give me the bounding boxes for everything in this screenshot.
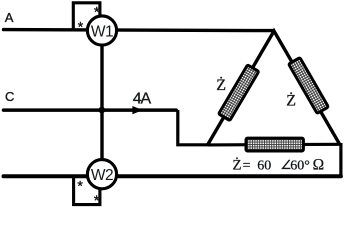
delta: left and right legs bbox=[208, 31, 340, 145]
wire: line C from left edge to corner bbox=[4, 108, 177, 112]
svg-text:Ż: Ż bbox=[216, 76, 226, 94]
wire: vertical from W1 down to W2 bbox=[100, 45, 103, 160]
impedance Z (delta left leg, hatched box) bbox=[219, 65, 259, 121]
wire: from delta right vertex down to line B bbox=[339, 143, 342, 176]
svg-text:Ż: Ż bbox=[286, 91, 296, 109]
svg-text:A: A bbox=[5, 10, 14, 25]
svg-text:4A: 4A bbox=[133, 91, 152, 108]
wire: line B from left edge to right riser bbox=[4, 174, 341, 178]
delta: bottom side bbox=[208, 143, 340, 147]
svg-text:Ż: Ż bbox=[232, 158, 241, 174]
svg-text:C: C bbox=[5, 89, 14, 104]
wattmeter W2 bbox=[87, 160, 116, 189]
svg-text:=: = bbox=[243, 159, 251, 174]
svg-text:*: * bbox=[77, 177, 83, 193]
wattmeter W1 potential-coil loop bbox=[73, 3, 100, 30]
svg-text:Ω: Ω bbox=[313, 157, 325, 174]
svg-text:*: * bbox=[94, 192, 100, 208]
svg-text:60: 60 bbox=[257, 159, 271, 174]
wattmeter W1 bbox=[87, 16, 116, 45]
svg-text:*: * bbox=[78, 19, 84, 35]
angle symbol (drawn; glyph missing in Liberation) bbox=[283, 160, 291, 169]
wire: C corner down then right to delta left vertex bbox=[178, 110, 209, 145]
current arrow 4A on line C bbox=[132, 106, 142, 114]
wire: line A from left edge to delta apex bbox=[4, 30, 274, 31]
wattmeter W2 potential-coil loop bbox=[74, 176, 100, 204]
svg-text:W1: W1 bbox=[91, 23, 113, 40]
impedance Z (delta right leg, hatched box) bbox=[289, 58, 329, 114]
junction (C line / wattmeter vertical) bbox=[99, 107, 106, 114]
svg-text:60°: 60° bbox=[290, 159, 310, 174]
impedance Z (delta bottom side, hatched box) bbox=[246, 138, 303, 151]
svg-text:W2: W2 bbox=[91, 167, 113, 184]
